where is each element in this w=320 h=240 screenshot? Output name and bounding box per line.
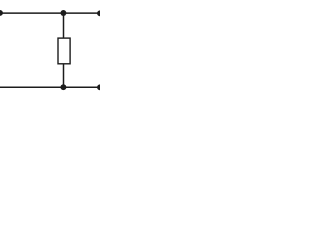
- wire top bus: [0, 12, 100, 14]
- node top-center junction: [60, 10, 66, 16]
- node bottom-center junction: [60, 84, 66, 90]
- node bottom-right junction: [97, 84, 103, 90]
- node top-right junction: [97, 10, 103, 16]
- wire resistor top lead: [63, 13, 65, 39]
- resistor: [58, 38, 70, 64]
- wire bottom bus: [0, 86, 100, 88]
- wire resistor bottom lead: [63, 64, 65, 88]
- node top-left junction: [0, 10, 3, 16]
